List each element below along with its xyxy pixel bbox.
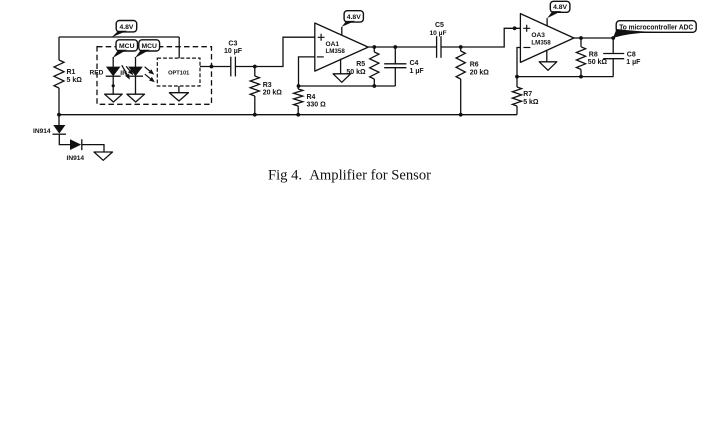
wire: OA3 V- pin [546,50,548,62]
svg-text:R1: R1 [67,69,76,76]
svg-text:LM358: LM358 [531,40,551,47]
svg-text:20 kΩ: 20 kΩ [263,89,283,96]
wire: C3 to OA1 + input [235,37,314,66]
wire: OA3 output [574,37,613,39]
resistor R6 20k [456,47,489,115]
svg-text:C3: C3 [228,41,237,48]
svg-text:Fig 4. Amplifier for Sensor: Fig 4. Amplifier for Sensor [268,167,431,183]
svg-text:IN914: IN914 [67,155,85,162]
svg-text:OA1: OA1 [326,41,340,48]
capacitor C4 1uF (shunt) [384,47,424,86]
ground: OA3 [539,62,557,71]
wire: bias bottom rail [59,114,517,116]
wire: IR LED cathode to ground [135,76,137,94]
node: output/C8 corner [611,36,615,40]
wire: MCU to RED LED anode [112,57,114,67]
resistor R7 5k [512,77,539,115]
node: R4 bottom [296,113,300,117]
wire: down to D1 [58,115,60,125]
diode D1 IN914 (vertical) [33,125,66,135]
node: at OA3 + input [513,26,517,30]
photodiode IC OPT101 [157,58,200,86]
svg-text:MCU: MCU [141,43,157,50]
svg-text:R6: R6 [470,62,479,69]
flag: 4.8V supply OA1 [344,11,363,22]
sensor module dashed box [97,47,212,105]
wire: OPT101 gnd pin [178,86,180,93]
svg-text:1 µF: 1 µF [626,59,641,66]
svg-text:20 kΩ: 20 kΩ [470,69,490,76]
light arrows from RED LED [122,65,133,79]
ground: OA1 [333,74,351,83]
svg-text:MCU: MCU [119,43,135,50]
node: on RED LED ground wire [112,84,115,87]
flag: 4.8V supply (left) [116,21,137,32]
resistor R4 330 [294,86,327,115]
svg-text:1 µF: 1 µF [410,68,425,75]
LED D3 RED [90,67,121,76]
wire: OA1 V- pin [340,59,342,74]
node: OA3 feedback node [515,75,519,79]
flag: MCU drive (IR) [139,40,160,51]
svg-text:4.8V: 4.8V [119,24,133,31]
flag: MCU drive (red) [116,40,138,51]
node: OA1 feedback node [297,84,301,88]
wire: feedback rail stage 2 [517,76,613,78]
svg-text:R5: R5 [356,61,365,68]
resistor R5 50k [346,47,379,86]
node: R1 bottom / bias rail junction [57,113,61,117]
node: R8 bottom [579,75,583,79]
svg-text:5 kΩ: 5 kΩ [523,99,539,106]
ground: OPT101 [169,93,188,101]
diode D2 IN914 (horizontal) [67,139,85,162]
svg-text:LM358: LM358 [326,48,346,55]
LED D4 IR [120,67,143,77]
svg-text:OPT101: OPT101 [168,70,189,76]
svg-text:C8: C8 [627,51,636,58]
ground: below D2 [94,152,113,160]
svg-text:50 kΩ: 50 kΩ [588,59,608,66]
svg-text:C4: C4 [410,60,419,67]
svg-text:RED: RED [90,69,104,76]
node: at dashed box edge [210,65,214,69]
light arrows into OPT101 [145,67,155,82]
node: R6 bottom [459,113,463,117]
capacitor C8 1uF (shunt) [603,38,641,77]
wire: C5 to OA3 + input [441,28,520,47]
svg-text:R7: R7 [523,91,532,98]
flag: 4.8V supply OA3 [550,1,570,12]
wire: OA3 - input to feedback node [517,48,520,77]
flag: To microcontroller ADC [616,21,696,33]
wire: D1 to D2 [59,134,70,144]
svg-text:330 Ω: 330 Ω [307,101,327,108]
svg-text:R8: R8 [589,51,598,58]
resistor R1 5k [54,37,82,115]
ground: IR LED [127,94,145,102]
svg-text:10 µF: 10 µF [430,30,447,37]
svg-text:R3: R3 [263,82,272,89]
node: output/R8 junction [579,36,583,40]
op-amp OA1 LM358 [315,23,368,71]
svg-text:To microcontroller ADC: To microcontroller ADC [619,25,693,32]
node: R5 bottom [372,84,376,88]
wire: OPT101 V+ pin [178,37,180,58]
node: R3 bottom [253,113,257,117]
resistor R8 50k [576,38,607,77]
wire: OPT101 output [200,66,231,68]
op-amp OA3 LM358 [520,14,574,63]
svg-text:R4: R4 [307,94,316,101]
wire: D2 to ground [82,145,104,152]
svg-text:4.8V: 4.8V [347,14,361,21]
svg-text:5 kΩ: 5 kΩ [67,77,83,84]
node: C5/R6 junction [459,45,463,49]
node: output/C4 junction [393,45,397,49]
capacitor C5 10uF (series) [430,22,447,58]
capacitor C3 10uF (series) [224,41,243,77]
wire: RED LED cathode to ground [112,76,114,94]
svg-text:50 kΩ: 50 kΩ [346,69,366,76]
svg-text:10 µF: 10 µF [224,48,243,55]
wire: feedback rail stage 1 [299,85,396,87]
wire: MCU to IR LED anode [135,57,137,67]
node: output/R5 junction [372,45,376,49]
svg-text:IN914: IN914 [33,128,51,135]
svg-text:4.8V: 4.8V [553,4,567,11]
node: C3/R3 junction [253,65,257,69]
ground: RED LED [105,94,123,102]
svg-text:OA3: OA3 [531,32,545,39]
wire: +4.8V top rail [59,36,179,38]
svg-text:C5: C5 [435,22,444,29]
wire: OA1 output [368,46,436,48]
wire: OA1 - input to feedback node [299,57,315,86]
resistor R3 20k [250,67,282,115]
